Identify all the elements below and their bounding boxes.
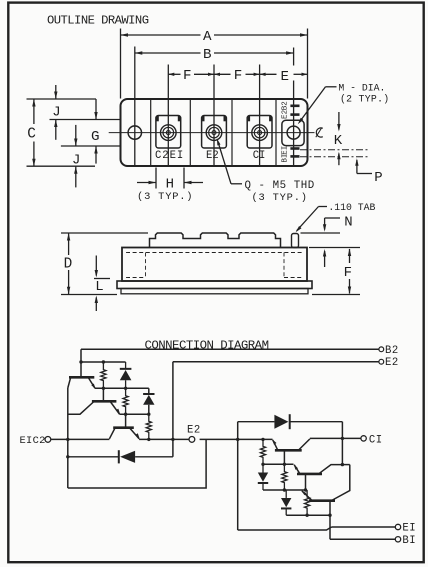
svg-text:J: J	[52, 104, 60, 120]
svg-text:EI: EI	[282, 146, 290, 155]
svg-text:L: L	[95, 279, 103, 295]
svg-text:CI: CI	[369, 434, 383, 446]
svg-text:N: N	[344, 215, 352, 231]
svg-text:F: F	[344, 265, 352, 281]
svg-text:G: G	[91, 129, 100, 145]
svg-text:F: F	[183, 68, 192, 84]
svg-text:E: E	[281, 69, 290, 85]
svg-text:H: H	[166, 176, 174, 192]
svg-text:E2: E2	[187, 425, 201, 437]
svg-text:.110 TAB: .110 TAB	[328, 202, 375, 213]
svg-text:EIC2: EIC2	[20, 435, 46, 447]
svg-text:J: J	[72, 152, 80, 168]
svg-text:C2EI: C2EI	[155, 150, 184, 162]
svg-text:E2: E2	[385, 357, 399, 369]
svg-text:BI: BI	[402, 535, 416, 547]
svg-text:E2: E2	[282, 109, 290, 119]
svg-text:F: F	[234, 68, 243, 84]
svg-text:M - DIA.: M - DIA.	[338, 82, 385, 93]
svg-text:B2: B2	[282, 101, 290, 111]
svg-text:EI: EI	[402, 523, 416, 535]
svg-text:(2 TYP.): (2 TYP.)	[340, 94, 389, 105]
svg-text:K: K	[334, 133, 343, 149]
svg-text:OUTLINE DRAWING: OUTLINE DRAWING	[47, 13, 149, 27]
svg-text:BI: BI	[282, 154, 290, 163]
svg-text:CONNECTION DIAGRAM: CONNECTION DIAGRAM	[145, 338, 269, 352]
svg-text:(3 TYP.): (3 TYP.)	[137, 191, 193, 203]
svg-text:B2: B2	[385, 345, 399, 357]
svg-text:Q - M5 THD: Q - M5 THD	[245, 180, 315, 192]
svg-text:A: A	[203, 29, 212, 45]
svg-text:CI: CI	[253, 150, 266, 162]
svg-text:E2: E2	[206, 150, 219, 162]
svg-text:(3 TYP.): (3 TYP.)	[252, 192, 308, 204]
svg-text:D: D	[64, 257, 73, 273]
svg-text:P: P	[374, 170, 382, 186]
svg-text:C: C	[27, 127, 36, 143]
svg-text:B: B	[203, 47, 212, 63]
